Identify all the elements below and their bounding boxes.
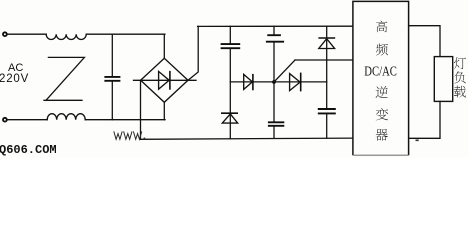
wire: AC top to bridge top vertex xyxy=(163,34,165,58)
wire: tap to inverter input xyxy=(295,59,354,61)
capacitor C6 plates xyxy=(318,109,336,113)
svg-text:220V: 220V xyxy=(0,73,29,85)
bridge BR1 internal diode lead xyxy=(134,79,197,81)
wire: inverter output top to lamp xyxy=(409,26,440,57)
inverter box U1 outline xyxy=(353,1,409,155)
wire: middle row from node at C2 branch to right branch xyxy=(230,81,326,83)
wire: bottom DC rail xyxy=(141,138,354,139)
diode D2 cathode bar xyxy=(300,73,302,92)
label RL char 载 xyxy=(454,86,466,98)
label U1 char 器 xyxy=(376,129,388,141)
capacitor C6 bottom lead xyxy=(326,114,328,138)
lamp load RL rectangle xyxy=(434,57,452,102)
capacitor C1 (across AC line) : top lead xyxy=(111,34,113,76)
wire: C3 down through mid node to C5 xyxy=(273,43,275,122)
wire: inductor L2 to bridge bottom node xyxy=(85,119,165,121)
capacitor C1 bottom lead xyxy=(111,82,113,120)
bridge BR1 internal diode triangle xyxy=(159,71,170,89)
wire: bridge bottom vertex to AC bottom xyxy=(163,102,165,119)
capacitor C3 stub from top rail xyxy=(273,26,275,34)
label U1 char 变 xyxy=(376,108,388,120)
capacitor C5 bottom lead xyxy=(273,127,275,139)
label RL char 灯 xyxy=(454,57,466,69)
diode D3 cathode bar xyxy=(221,112,238,114)
diode D4 top lead from rail xyxy=(326,26,328,37)
wire: lamp to inverter output bottom xyxy=(409,101,440,138)
wire: diagonal tap from node A xyxy=(274,60,295,82)
capacitor C3 plates xyxy=(266,35,284,42)
diode D3 triangle (pointing up) xyxy=(222,114,237,123)
label U1 char 高 xyxy=(376,21,387,33)
wire: inductor L1 to bridge top node xyxy=(86,33,165,35)
wire: bridge positive output diagonal xyxy=(188,26,198,80)
diode D4 cathode bar xyxy=(318,37,335,39)
wire: top terminal to inductor L1 xyxy=(8,33,47,35)
diode D2 triangle xyxy=(290,74,301,91)
capacitor C2 top lead from rail xyxy=(229,26,231,43)
inverter box U1 bottom edge (faint) xyxy=(353,154,409,156)
varistor Z (surge absorber) xyxy=(44,57,84,100)
terminal T2 (AC line input, bottom) xyxy=(3,118,7,122)
inductor L1 (top line filter choke) xyxy=(46,34,86,39)
diode D4 triangle (pointing up) xyxy=(319,39,335,49)
svg-text:DC/AC: DC/AC xyxy=(364,64,397,79)
terminal T1 (AC line input, top) xyxy=(3,32,7,36)
watermark WWW. xyxy=(114,131,142,139)
inductor L2 (bottom line filter choke) xyxy=(47,114,85,120)
label U1 char 逆 xyxy=(376,86,388,98)
watermark speck xyxy=(416,140,419,142)
wire: top DC rail xyxy=(198,25,354,27)
wire: C2 to diode D3 branch xyxy=(229,49,231,139)
label U1 char 频 xyxy=(376,44,388,56)
label RL char 负 xyxy=(454,71,466,83)
wire: bridge negative output down to bottom rail xyxy=(140,80,142,139)
diode D1 cathode bar xyxy=(252,74,254,90)
wire: bottom terminal to inductor L2 xyxy=(8,119,48,121)
bridge rectifier BR1 diamond outline xyxy=(141,58,188,102)
wire: D4 down through tap and mid row to C6 xyxy=(326,39,328,109)
bridge BR1 internal diode cathode bar xyxy=(169,71,171,90)
capacitor C5 plates xyxy=(268,122,284,126)
capacitor C2 plates xyxy=(221,44,241,48)
diode D1 triangle xyxy=(244,74,253,89)
svg-text:Q606.COM: Q606.COM xyxy=(0,143,57,157)
junction node A (dot) xyxy=(272,80,276,84)
capacitor C1 plates xyxy=(104,77,120,81)
